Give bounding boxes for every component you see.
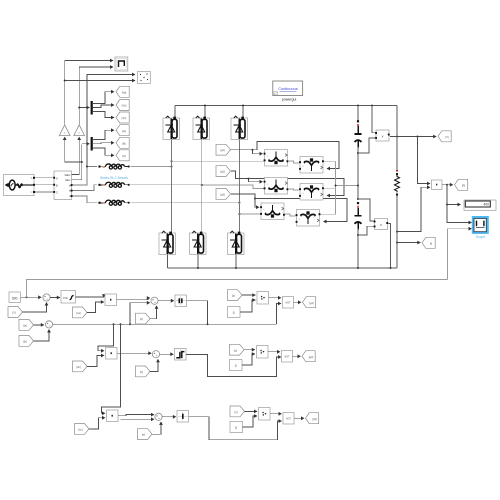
wire Vm1 out to goto Vdc: [390, 136, 436, 138]
capacitor C1: [355, 120, 362, 147]
node junction: [238, 202, 240, 204]
capacitor C2: [355, 202, 362, 229]
wire: [79, 107, 89, 109]
svg-text:C: C: [31, 190, 33, 194]
svg-text:[Ic]: [Ic]: [122, 154, 126, 158]
wire resistor bottom: [396, 196, 398, 269]
logic AND1a: [257, 292, 269, 305]
svg-text:Series RLC Branch: Series RLC Branch: [100, 176, 128, 180]
wire: [65, 137, 82, 162]
wire to scope2 in1: [447, 205, 472, 223]
svg-text:600: 600: [12, 296, 18, 300]
node junction vm feed: [371, 105, 373, 107]
wire Ia to sum3: [34, 324, 44, 326]
igbt B3: [296, 210, 321, 227]
node junction: [357, 198, 359, 200]
wire common to cap node: [336, 185, 359, 187]
wire A2 out to B2: [288, 189, 299, 190]
wire 600 to sum1: [21, 296, 42, 298]
demux Demux1: [91, 101, 93, 115]
svg-text:[sb]: [sb]: [76, 365, 81, 369]
goto tag Idc: [422, 237, 435, 248]
svg-text:[g1]: [g1]: [220, 148, 225, 152]
wire sum2b to relay2: [160, 353, 174, 355]
svg-text:Continuous: Continuous: [278, 87, 297, 91]
svg-text:[g3]: [g3]: [220, 192, 225, 196]
node junction: [64, 80, 66, 82]
wire: [87, 75, 135, 167]
XY graph block: [138, 72, 151, 84]
svg-text:[tr]: [tr]: [140, 317, 143, 321]
wire g1 to B1 gate: [253, 142, 340, 169]
relay Relay3: [177, 411, 189, 423]
wire demux1 to tag Vb: [93, 105, 114, 108]
logic AND1b: [257, 346, 269, 359]
wire relay3 out: [189, 417, 282, 440]
svg-text:0: 0: [235, 364, 237, 368]
goto tag Va: [116, 86, 129, 97]
wire bottom bus: [168, 267, 398, 269]
voltage measurement Vm2: [374, 219, 389, 230]
constant 600: [9, 292, 21, 303]
wire tri a to sum2: [150, 306, 157, 319]
svg-text:[p]: [p]: [235, 410, 238, 414]
diode D6: [228, 231, 245, 254]
wire sin c to product3: [89, 418, 105, 429]
wire: [79, 67, 113, 125]
igbt B1: [299, 157, 324, 174]
svg-text:400: 400: [483, 203, 489, 207]
svg-text:B: B: [56, 183, 58, 187]
demux Demux2: [91, 137, 93, 151]
wire: [357, 229, 359, 269]
wire Ib to sum3: [34, 330, 50, 342]
wire rectifier leg3: [238, 140, 240, 234]
from tag Ib ref: [19, 336, 34, 347]
svg-text:[Ia]: [Ia]: [23, 324, 27, 328]
wire and1b to and2b: [268, 351, 280, 353]
scope Scope1: [115, 57, 128, 71]
wire g2 to A2 gate: [231, 171, 263, 182]
wire phase c: [131, 202, 240, 204]
inductor RLC branch 3: [98, 200, 129, 205]
node junction: [171, 166, 173, 168]
svg-text:NOT: NOT: [284, 356, 290, 359]
three-phase source block: [4, 174, 35, 195]
wire sin b to product2: [87, 356, 104, 367]
wire up to and2a: [277, 304, 282, 325]
node junction: [396, 242, 398, 244]
igbt A1: [264, 150, 289, 167]
constant 0 b: [230, 360, 243, 371]
wire D6 to bus: [235, 255, 237, 269]
svg-text:[sc]: [sc]: [78, 428, 82, 432]
svg-text:PID: PID: [63, 296, 68, 300]
wire g3 to B3 gate: [255, 199, 347, 222]
wire D5 to bus: [197, 255, 199, 269]
wire tri c to sum2c: [152, 422, 161, 434]
wire c to inductor3: [73, 196, 98, 203]
voltage measurement Vm1: [375, 130, 390, 141]
wire ref to scope2 in2: [448, 229, 472, 280]
wire branch to product3: [102, 324, 121, 413]
node junction: [207, 323, 209, 325]
svg-text:[g1]: [g1]: [309, 301, 314, 305]
node junction: [201, 184, 203, 186]
wire to product in1: [418, 137, 431, 184]
from tag Vdc fb: [8, 307, 23, 318]
wire relay2 out: [186, 354, 281, 376]
node junction: [129, 323, 131, 325]
node junction: [26, 296, 28, 298]
diode D5: [190, 231, 207, 254]
wire branch to product2: [98, 324, 114, 351]
goto tag Ic: [116, 150, 129, 161]
svg-text:[Ib]: [Ib]: [122, 142, 126, 146]
three-phase VI measurement block: [53, 171, 72, 200]
node junction: [252, 149, 254, 151]
svg-text:B: B: [31, 183, 33, 187]
wire demux1 to tag Vc: [93, 112, 114, 118]
diode D1: [163, 116, 180, 139]
goto tag Vb: [116, 100, 129, 111]
wire and2b to goto: [293, 355, 301, 357]
logic AND2b: [282, 351, 293, 363]
from tag tri b: [136, 366, 151, 377]
goto tag Vc: [116, 112, 129, 123]
goto tag Ib: [116, 137, 129, 148]
powergui block: [273, 81, 303, 102]
from tag g3: [216, 189, 231, 200]
wire demux2 to tag Ib: [93, 143, 114, 144]
wire to display: [447, 185, 461, 205]
svg-text:[I]: [I]: [430, 242, 432, 246]
diode D2: [193, 116, 210, 139]
wire const a to and1a: [240, 300, 255, 312]
svg-text:0: 0: [235, 426, 237, 430]
goto tag pulse a: [303, 297, 316, 308]
wire PID to product1: [76, 296, 104, 298]
constant 0 c: [230, 422, 243, 433]
svg-text:[p]: [p]: [234, 348, 237, 352]
gain triangle 2: [74, 125, 85, 136]
wire g3 to A3 gate: [231, 194, 259, 207]
wire g1 to A1 gate: [231, 150, 263, 154]
svg-text:0: 0: [233, 311, 235, 315]
wire bus drop D3: [242, 106, 244, 119]
wire demux2 to tag Ia: [93, 130, 114, 139]
wire rectifier leg2: [201, 140, 203, 234]
constant 0 a: [228, 307, 241, 318]
wire and2a to goto: [294, 301, 302, 303]
from tag sin a: [73, 307, 88, 318]
sum Sum3: [45, 321, 52, 328]
wire and1c to and2c: [270, 413, 282, 415]
wire: [72, 137, 80, 175]
relay Relay2: [175, 349, 187, 361]
from tag pwm c: [230, 406, 245, 417]
node junction: [248, 178, 250, 180]
wire A3 out to B3: [285, 214, 296, 216]
wire tri b to sum2b: [150, 359, 158, 371]
wire sum2c to relay3: [162, 416, 176, 418]
from tag g2: [216, 166, 231, 177]
svg-text:[V]: [V]: [12, 311, 16, 315]
svg-text:powergui: powergui: [282, 98, 297, 102]
wire C: [35, 191, 53, 193]
sum Sum2: [151, 297, 158, 304]
wire current branch to product in2: [397, 187, 430, 231]
wire bus to Vm2 minus: [358, 226, 374, 235]
wire B2 to common: [324, 187, 336, 189]
igbt A2: [264, 178, 289, 195]
wire pwm b to and1b: [244, 349, 255, 351]
wire pwm a to and1a: [242, 294, 255, 296]
wire const b to and1b: [242, 354, 255, 365]
goto tag pulse b: [302, 351, 315, 362]
scope Scope2 selected: [472, 216, 489, 239]
node junction: [396, 136, 398, 138]
wire err to sum2: [130, 303, 150, 324]
from tag pwm a: [228, 290, 243, 301]
goto tag P: [455, 179, 468, 190]
from tag tri c: [138, 429, 153, 440]
svg-text:[g2]: [g2]: [220, 170, 225, 174]
display block: [464, 200, 496, 210]
goto tag pulse c: [306, 413, 319, 424]
svg-text:[tr]: [tr]: [142, 433, 145, 437]
wire: [82, 143, 90, 145]
wire bus drop D2: [204, 106, 206, 119]
svg-text:[V]: [V]: [445, 135, 449, 139]
wire product out: [442, 184, 453, 186]
wire Vm2 out down: [389, 224, 391, 269]
from tag sin c: [75, 424, 90, 435]
wire A1 out to B1: [288, 161, 299, 163]
from tag pwm b: [230, 344, 245, 355]
wire to goto Idc: [397, 242, 420, 244]
node junction: [81, 161, 83, 163]
wire demux2 to tag Ic: [93, 148, 114, 155]
wire sum2 to relay1: [158, 300, 174, 302]
resistor load R: [395, 171, 400, 196]
svg-text:[sa]: [sa]: [76, 311, 81, 315]
goto tag Ia: [116, 125, 129, 136]
diode D4: [159, 231, 176, 254]
wire top DC bus: [175, 105, 397, 107]
wire product2 to sum2b: [117, 352, 151, 354]
wire ref long feedback: [27, 280, 448, 298]
node junction: [396, 231, 398, 233]
wire: [357, 147, 359, 199]
diode D3: [231, 116, 248, 139]
wire: [65, 61, 113, 126]
wire phase c to A3: [239, 213, 260, 215]
wire and1a to and2a: [269, 297, 282, 299]
wire bus to Vm1 plus: [372, 106, 375, 133]
node junction: [446, 184, 448, 186]
wire phase b: [131, 185, 265, 189]
product Product3: [107, 410, 119, 422]
wire const c to and1c: [243, 416, 258, 427]
svg-text:A: A: [31, 176, 33, 180]
from tag Ia ref: [19, 320, 34, 331]
logic AND2c: [283, 413, 294, 425]
wire phase a up: [172, 160, 265, 162]
wire demux1 to tag Va: [93, 92, 114, 104]
svg-text:A: A: [56, 176, 58, 180]
svg-text:[Va]: [Va]: [122, 91, 127, 95]
svg-text:[Vb]: [Vb]: [122, 104, 127, 108]
node junction: [357, 185, 359, 187]
wire lower in sum2c: [121, 418, 155, 420]
svg-text:[p]: [p]: [232, 294, 235, 298]
wire A: [35, 177, 53, 179]
wire common vertical: [335, 161, 337, 214]
wire B1 to common: [324, 160, 336, 162]
svg-text:Iabc: Iabc: [65, 178, 71, 182]
svg-text:C: C: [56, 191, 58, 195]
wire Vdc fb to sum1: [23, 303, 47, 313]
wire sum1 to PID: [50, 297, 60, 299]
wire rectifier leg1: [171, 140, 173, 234]
node junction: [254, 198, 256, 200]
wire bus drop D1: [174, 106, 176, 119]
wire DC link vertical: [357, 106, 359, 122]
svg-text:[tr]: [tr]: [140, 370, 143, 374]
logic AND1c: [259, 408, 271, 421]
wire and2c to goto: [294, 417, 304, 419]
node junction cap feed: [357, 105, 359, 107]
wire D4 to bus: [167, 255, 169, 269]
wire cap2 top to Vm2: [358, 199, 374, 221]
node junction: [446, 204, 448, 206]
node junction: [357, 152, 359, 154]
svg-text:NOT: NOT: [285, 302, 291, 305]
svg-text:Scope: Scope: [476, 235, 486, 239]
node junction: [113, 323, 115, 325]
inductor RLC branch 2: [98, 182, 129, 187]
goto tag Vdc: [438, 131, 451, 142]
PID controller: [61, 291, 76, 304]
svg-text:[g3]: [g3]: [312, 417, 317, 421]
product block P: [432, 180, 443, 190]
svg-text:[P]: [P]: [462, 184, 466, 188]
svg-text:[Ib]: [Ib]: [23, 340, 27, 344]
node junction: [357, 234, 359, 236]
wire resistor top: [396, 106, 398, 171]
node junction: [171, 160, 173, 162]
wire B: [35, 184, 53, 186]
svg-text:Vabc: Vabc: [64, 173, 71, 177]
igbt B2: [299, 184, 324, 201]
node junction: [78, 107, 80, 109]
from tag g1: [216, 144, 231, 155]
sum Sum1: [43, 294, 50, 301]
svg-text:[Ia]: [Ia]: [122, 129, 126, 133]
wire relay1 out: [187, 301, 208, 324]
node junction: [335, 185, 337, 187]
wire a to inductor1: [73, 167, 98, 186]
wire product3 to sum2c: [118, 415, 154, 416]
wire pwm c to and1c: [245, 410, 258, 412]
from tag sin b: [73, 361, 88, 372]
inductor RLC branch 1: [98, 164, 129, 169]
wire: [65, 80, 135, 82]
wire B3 to common: [321, 213, 336, 215]
node junction: [417, 136, 419, 138]
relay Relay1: [175, 295, 187, 307]
from tag tri a: [136, 313, 151, 324]
node junction: [120, 323, 122, 325]
igbt A3: [260, 203, 285, 220]
node junction: [238, 213, 240, 215]
sum Sum2c: [155, 413, 162, 420]
sum Sum2b: [152, 351, 159, 358]
node junction: [86, 166, 88, 168]
logic AND2a: [283, 297, 294, 309]
wire: [72, 163, 82, 180]
wire: [81, 145, 83, 163]
gain triangle 1: [59, 125, 70, 136]
wire cap mid to Vm1 minus: [358, 138, 375, 153]
wire sin a to product1: [87, 302, 104, 313]
product Product1: [105, 294, 117, 306]
wire b to inductor2: [73, 185, 98, 191]
svg-text:[g2]: [g2]: [309, 355, 314, 359]
wire g2 to B2 gate: [249, 179, 345, 196]
wire product1 to sum2: [117, 298, 150, 300]
wire phase a: [131, 166, 172, 168]
svg-text:[Vc]: [Vc]: [122, 116, 127, 120]
product Product2: [106, 348, 118, 360]
wire sum3 long current line: [53, 323, 277, 325]
svg-text:NOT: NOT: [286, 418, 292, 421]
